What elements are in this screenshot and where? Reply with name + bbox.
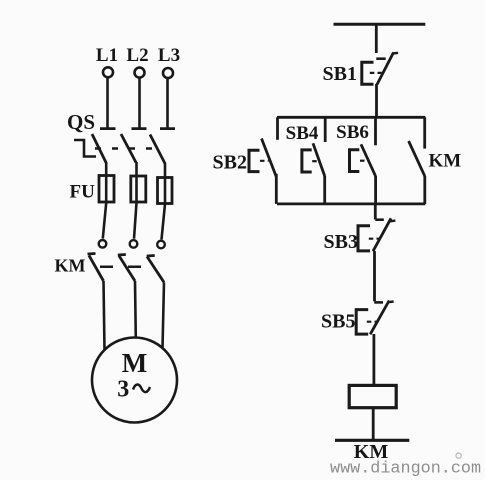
svg-text:KM: KM — [429, 151, 462, 172]
svg-text:www.diangon.com: www.diangon.com — [330, 460, 481, 479]
svg-text:3: 3 — [117, 377, 129, 403]
svg-text:L1: L1 — [96, 45, 118, 66]
svg-text:SB6: SB6 — [336, 122, 369, 143]
svg-text:SB4: SB4 — [286, 123, 319, 144]
svg-text:SB1: SB1 — [323, 63, 357, 85]
svg-text:QS: QS — [67, 110, 95, 134]
svg-text:FU: FU — [70, 182, 96, 203]
svg-text:L2: L2 — [126, 45, 148, 66]
svg-text:SB3: SB3 — [324, 231, 358, 253]
svg-text:M: M — [122, 348, 147, 378]
svg-text:KM: KM — [55, 256, 86, 276]
svg-text:SB2: SB2 — [213, 151, 247, 173]
svg-text:L3: L3 — [158, 45, 180, 66]
svg-text:SB5: SB5 — [321, 311, 355, 333]
